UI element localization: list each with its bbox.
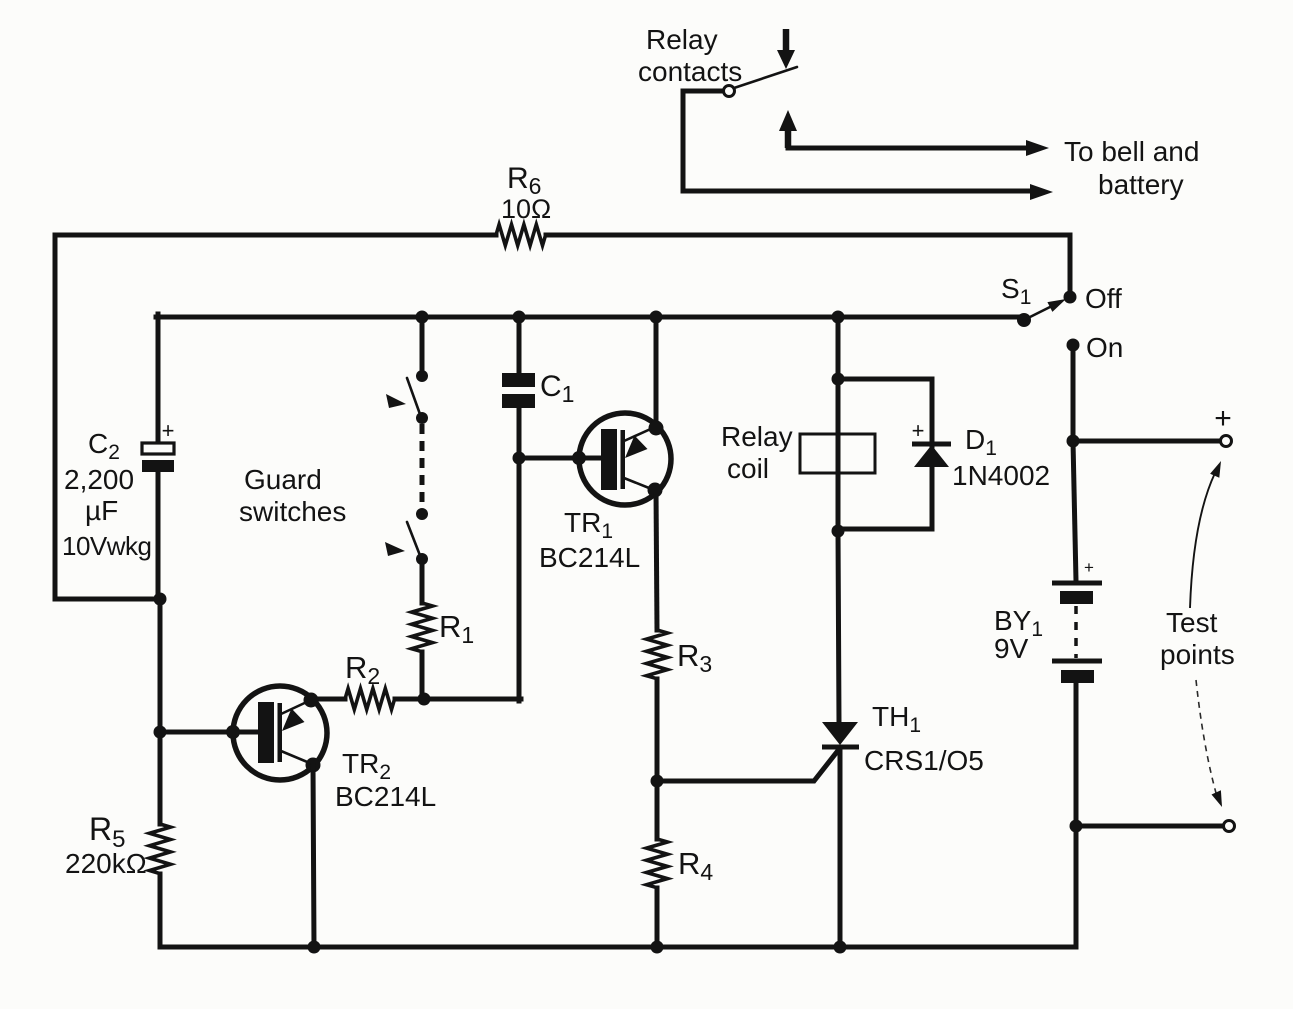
svg-text:To bell and: To bell and — [1064, 136, 1199, 167]
guard switch arrow 1 — [386, 394, 406, 408]
label Test points — [1160, 607, 1235, 670]
svg-text:10Vwkg: 10Vwkg — [62, 531, 152, 561]
arrowhead lower to-bell arrow — [1030, 184, 1053, 200]
wire top rail left of R6 — [55, 233, 496, 238]
wire guard switch stem — [420, 317, 425, 376]
guard switch arrow 2 — [385, 542, 405, 556]
svg-text:BC214L: BC214L — [335, 781, 436, 812]
wire TR2 base lead — [160, 730, 259, 735]
node junction inner rail TR1 — [650, 311, 663, 324]
label BY1 9V — [994, 605, 1043, 664]
guard switch blade 2 — [407, 522, 421, 558]
label Guard switches — [239, 464, 346, 527]
svg-text:+: + — [912, 418, 925, 443]
capacitor C2 — [142, 418, 174, 472]
up arrow to bell — [779, 110, 797, 148]
lower test point terminal — [1224, 821, 1235, 832]
battery BY1 — [1052, 558, 1102, 683]
node junction upper test point — [1067, 435, 1080, 448]
node guard switch contact 3 — [416, 508, 428, 520]
svg-text:Test: Test — [1166, 607, 1218, 638]
node junction lower test point — [1070, 820, 1083, 833]
label C2 value — [62, 428, 152, 561]
svg-text:9V: 9V — [994, 633, 1029, 664]
wire left outer loop — [55, 235, 159, 599]
resistor R3 — [647, 630, 668, 679]
wire battery to lower junction — [1074, 683, 1079, 947]
node junction TR2 base tap — [154, 726, 167, 739]
wire R2 to riser — [395, 697, 521, 702]
label TR2 BC214L — [335, 748, 436, 812]
wire C1 stem upper — [517, 317, 522, 373]
svg-text:points: points — [1160, 639, 1235, 670]
actuation down arrow — [777, 29, 795, 69]
wire top rail right of R6 — [546, 235, 1070, 295]
svg-text:µF: µF — [85, 495, 118, 526]
wire R3 to R4 — [655, 679, 660, 839]
wire bottom rail — [160, 945, 1076, 950]
node junction relay D1 top — [832, 373, 845, 386]
wire TH1 gate — [660, 748, 840, 781]
wire TH1 cathode down — [838, 747, 843, 947]
resistor R1 — [412, 603, 433, 652]
wire guard to R1 — [420, 559, 425, 603]
switch S1 common node — [1017, 313, 1031, 327]
svg-text:Off: Off — [1085, 283, 1122, 314]
upper test point terminal — [1221, 436, 1232, 447]
svg-text:On: On — [1086, 332, 1123, 363]
arrowhead upper to-bell arrow — [1026, 140, 1049, 156]
wire C2 stem lower — [156, 472, 161, 601]
wire relay to thyristor — [838, 531, 839, 723]
wire TR1 base lead — [519, 456, 603, 461]
wire upper to-bell arrow — [788, 146, 1028, 151]
transistor TR2 — [226, 686, 327, 780]
wire On to test junction — [1071, 345, 1076, 443]
wire TR1 emitter stem — [654, 317, 659, 428]
svg-text:1N4002: 1N4002 — [952, 460, 1050, 491]
resistor R5 — [150, 824, 171, 874]
svg-text:10Ω: 10Ω — [501, 194, 551, 224]
node junction R1 R2 — [418, 693, 431, 706]
node junction bottom rail TH1 — [834, 941, 847, 954]
svg-text:Relay: Relay — [646, 24, 718, 55]
label TH1 CRS1/O5 — [864, 701, 984, 776]
wire inner top rail — [156, 315, 1024, 320]
svg-text:switches: switches — [239, 496, 346, 527]
wire TR1 collector to R3 — [656, 490, 657, 630]
node junction inner rail guard — [416, 311, 429, 324]
label D1 1N4002 — [952, 424, 1050, 491]
label TR1 BC214L — [539, 507, 640, 573]
wire to lower test point — [1076, 824, 1222, 829]
thyristor TH1 — [822, 722, 859, 747]
pointer arrow to lower test point — [1196, 680, 1222, 807]
node junction C1 TR1 base — [513, 452, 526, 465]
node guard switch contact 2 — [416, 412, 428, 424]
relay contact pivot — [724, 86, 735, 97]
wire C1 stem lower — [517, 408, 522, 701]
relay coil box — [800, 434, 875, 473]
svg-text:BC214L: BC214L — [539, 542, 640, 573]
wire through relay coil — [836, 379, 841, 533]
relay contact blade — [734, 67, 797, 88]
wire dashed guard link — [420, 424, 425, 510]
node junction inner rail relay — [832, 311, 845, 324]
svg-text:Guard: Guard — [244, 464, 322, 495]
resistor R6 — [496, 225, 546, 246]
node junction inner rail C1 — [513, 311, 526, 324]
wire R5 to bottom rail — [158, 874, 163, 947]
wire relay contacts to lower arrow — [683, 91, 1032, 191]
svg-text:+: + — [1214, 402, 1232, 435]
svg-text:+: + — [162, 418, 175, 443]
switch S1 blade arrowhead — [1047, 299, 1066, 312]
wire TR2 emitter to R2 — [311, 697, 345, 702]
node guard switch bottom contact — [416, 553, 428, 565]
node junction gate tap — [651, 775, 664, 788]
svg-text:220kΩ: 220kΩ — [65, 848, 147, 879]
resistor R2 — [345, 689, 395, 710]
transistor TR1 — [572, 413, 671, 505]
wire left column down — [158, 599, 163, 824]
resistor R4 — [647, 839, 668, 888]
capacitor C1 — [502, 370, 574, 408]
wire C2 stem upper — [156, 314, 161, 444]
node junction bottom rail R4 — [651, 941, 664, 954]
guard switch blade 1 — [407, 378, 421, 417]
node guard switch top contact — [416, 370, 428, 382]
wire R4 bottom — [655, 888, 660, 947]
svg-text:Relay: Relay — [721, 421, 793, 452]
node junction bottom rail TR2 — [308, 941, 321, 954]
svg-text:battery: battery — [1098, 169, 1184, 200]
wire D1 branch top — [838, 379, 932, 446]
diode D1 — [912, 418, 951, 467]
node junction C2 bottom — [154, 593, 167, 606]
wire D1 branch bottom — [838, 465, 932, 529]
wire relay branch stem — [836, 317, 841, 381]
switch S1 blade — [1024, 304, 1056, 320]
svg-text:+: + — [1084, 558, 1094, 577]
label R5 220k — [65, 811, 147, 879]
label Relay coil — [721, 421, 793, 484]
node S1 Off contact — [1064, 291, 1077, 304]
svg-text:contacts: contacts — [638, 56, 742, 87]
wire junction to battery — [1073, 441, 1076, 581]
wire to upper test point — [1073, 439, 1219, 444]
label Relay contacts — [638, 24, 742, 87]
wire TR2 collector down — [313, 765, 314, 947]
pointer arrow to upper test point — [1190, 461, 1221, 608]
wire R1 bottom — [420, 652, 425, 699]
label To bell and battery — [1064, 136, 1199, 200]
svg-text:coil: coil — [727, 453, 769, 484]
node junction relay D1 bottom — [832, 525, 845, 538]
label R6 10ohm — [501, 162, 551, 224]
svg-text:CRS1/O5: CRS1/O5 — [864, 745, 984, 776]
svg-text:2,200: 2,200 — [64, 464, 134, 495]
node S1 On contact — [1067, 339, 1080, 352]
